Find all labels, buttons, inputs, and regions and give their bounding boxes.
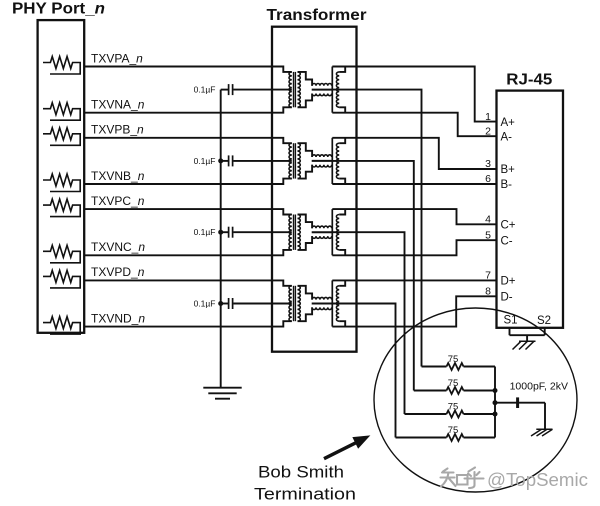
svg-text:S2: S2 bbox=[537, 315, 551, 327]
svg-text:TXVPA_n: TXVPA_n bbox=[91, 51, 143, 65]
svg-text:TXVNC_n: TXVNC_n bbox=[91, 240, 145, 254]
svg-text:D+: D+ bbox=[501, 276, 516, 288]
svg-text:0.1µF: 0.1µF bbox=[194, 85, 216, 95]
svg-text:C+: C+ bbox=[501, 220, 516, 232]
svg-text:75: 75 bbox=[448, 425, 459, 436]
svg-text:8: 8 bbox=[485, 286, 491, 298]
svg-text:Termination: Termination bbox=[254, 486, 356, 504]
svg-text:TXVND_n: TXVND_n bbox=[91, 311, 145, 325]
svg-text:TXVNA_n: TXVNA_n bbox=[91, 98, 145, 112]
svg-text:C-: C- bbox=[501, 235, 513, 247]
svg-text:TXVPC_n: TXVPC_n bbox=[91, 194, 145, 208]
svg-text:7: 7 bbox=[485, 270, 491, 282]
svg-text:75: 75 bbox=[448, 354, 459, 365]
svg-text:0.1µF: 0.1µF bbox=[194, 299, 216, 309]
svg-text:75: 75 bbox=[448, 378, 459, 389]
svg-text:2: 2 bbox=[485, 125, 491, 137]
svg-text:TXVNB_n: TXVNB_n bbox=[91, 169, 145, 183]
svg-text:A-: A- bbox=[501, 131, 513, 143]
svg-text:4: 4 bbox=[485, 214, 491, 226]
svg-text:1: 1 bbox=[485, 111, 491, 123]
svg-text:6: 6 bbox=[485, 173, 491, 185]
svg-text:3: 3 bbox=[485, 158, 491, 170]
svg-text:B+: B+ bbox=[501, 164, 516, 176]
svg-text:TXVPB_n: TXVPB_n bbox=[91, 123, 144, 137]
svg-text:PHY Port_n: PHY Port_n bbox=[12, 1, 105, 18]
svg-text:RJ-45: RJ-45 bbox=[506, 72, 552, 89]
svg-text:0.1µF: 0.1µF bbox=[194, 227, 216, 237]
svg-text:@TopSemic: @TopSemic bbox=[487, 469, 588, 490]
svg-text:1000pF, 2kV: 1000pF, 2kV bbox=[510, 380, 568, 392]
svg-text:B-: B- bbox=[501, 179, 513, 191]
svg-text:A+: A+ bbox=[501, 117, 516, 129]
svg-text:Bob Smith: Bob Smith bbox=[258, 464, 344, 482]
svg-text:D-: D- bbox=[501, 292, 513, 304]
svg-text:TXVPD_n: TXVPD_n bbox=[91, 265, 145, 279]
svg-text:5: 5 bbox=[485, 229, 491, 241]
svg-text:Transformer: Transformer bbox=[267, 7, 367, 24]
svg-text:0.1µF: 0.1µF bbox=[194, 156, 216, 166]
svg-text:S1: S1 bbox=[504, 315, 518, 327]
svg-text:75: 75 bbox=[448, 402, 459, 413]
